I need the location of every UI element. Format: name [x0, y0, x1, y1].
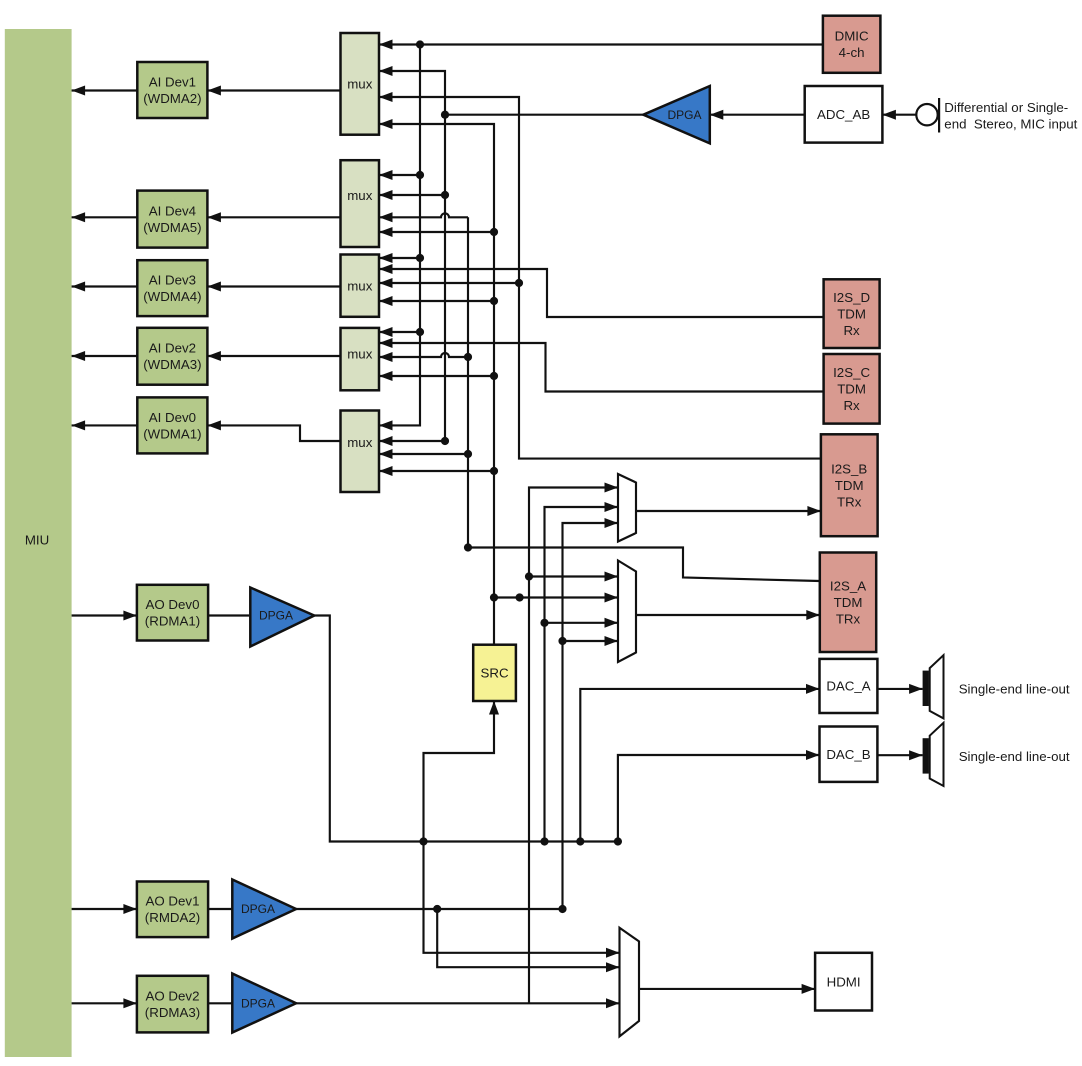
wire SRC branch to mux M4 input 4: [379, 371, 494, 381]
svg-text:mux: mux: [347, 188, 372, 203]
wire ADC column (B) to mux M1 input 2: [379, 66, 449, 445]
wire DPGA2 output to trapezoid B3 input 3: [296, 998, 619, 1008]
svg-text:I2S_D: I2S_D: [833, 290, 870, 305]
svg-text:AI Dev4: AI Dev4: [149, 204, 196, 219]
svg-text:AI Dev1: AI Dev1: [149, 74, 196, 89]
block AO Dev0 (RDMA1): [137, 585, 208, 641]
svg-text:(RDMA3): (RDMA3): [145, 1005, 200, 1020]
wire AO Dev2 to DPGA: [208, 1002, 232, 1004]
wire DMIC column down to mux M5 input 1: [379, 45, 424, 431]
wire AI Dev3 to MIU: [72, 282, 138, 292]
wire DMIC output to mux M1 input 1: [379, 40, 823, 50]
MIU memory-interface bar: [5, 29, 72, 1057]
wire trapezoid B2 output to I2S_A Tx: [636, 610, 820, 620]
svg-text:DAC_B: DAC_B: [826, 747, 870, 762]
wire AO Dev0 to DPGA: [208, 614, 249, 616]
wire DAC_A to speaker: [877, 684, 922, 694]
wire SRC branch to mux M2 input 4: [379, 227, 494, 237]
wire AO Dev0 branch to trapezoid B2 input 3: [545, 618, 619, 628]
svg-text:TDM: TDM: [837, 306, 866, 321]
wire I2S_A branch to mux M5 input 3: [379, 449, 468, 459]
svg-text:TRx: TRx: [836, 611, 861, 626]
wire AO Dev1 column H up to trapezoid B1 input 3: [558, 518, 618, 909]
wire mux M1 output to AI box: [207, 86, 340, 96]
wire I2S_A column C to mux M2 input 3: [464, 217, 472, 547]
svg-text:AO Dev2: AO Dev2: [146, 989, 200, 1004]
wire AO Dev0 riser to SRC input: [424, 701, 500, 842]
svg-text:I2S_B: I2S_B: [831, 461, 867, 476]
svg-text:(WDMA5): (WDMA5): [143, 220, 201, 235]
block AI Dev0 (WDMA1): [137, 397, 207, 453]
wire trapezoid B1 output to I2S_B Tx: [636, 506, 821, 516]
wire I2S_A branch to mux M2 input 3 (hop): [379, 212, 468, 222]
svg-text:(RMDA2): (RMDA2): [145, 910, 200, 925]
wire DMIC branch to mux M2 input 1: [379, 170, 420, 180]
svg-text:mux: mux: [347, 435, 372, 450]
svg-text:SRC: SRC: [481, 666, 509, 681]
block DAC_B: [820, 727, 878, 782]
mux M3: [341, 255, 380, 317]
wire ADC branch to mux M2 input 2: [379, 190, 445, 200]
block I2S_B TDM TRx: [821, 434, 878, 536]
svg-text:mux: mux: [347, 77, 372, 92]
mux trapezoid B1 (I2S_B Tx select): [618, 474, 636, 542]
svg-text:TRx: TRx: [837, 494, 862, 509]
svg-text:AO Dev0: AO Dev0: [146, 597, 200, 612]
block I2S_C TDM Rx: [824, 354, 880, 424]
wire mux M2 output to AI box: [207, 212, 340, 222]
svg-text:AI Dev3: AI Dev3: [149, 273, 196, 288]
svg-text:MIU: MIU: [25, 533, 49, 548]
speaker line-out B: [923, 723, 944, 786]
wire SRC branch to mux M3 input 4: [379, 296, 494, 306]
wire MIU to AO Dev1: [72, 904, 137, 914]
wire DPGA1 output across (AO Dev1 net): [296, 905, 567, 913]
svg-text:mux: mux: [347, 278, 372, 293]
wire AO Dev0 riser to DAC_B: [618, 750, 820, 842]
svg-text:ADC_AB: ADC_AB: [817, 107, 870, 122]
svg-text:(WDMA4): (WDMA4): [143, 289, 201, 304]
wire AO Dev0 riser to DAC_A: [580, 684, 819, 842]
svg-text:TDM: TDM: [837, 382, 866, 397]
svg-text:(WDMA1): (WDMA1): [143, 426, 201, 441]
svg-text:AI Dev2: AI Dev2: [149, 341, 196, 356]
label single-end line-out: [959, 682, 1070, 697]
svg-text:Single-end line-out: Single-end line-out: [959, 682, 1070, 697]
svg-text:4-ch: 4-ch: [839, 45, 865, 60]
block SRC sample-rate converter: [473, 645, 516, 701]
svg-text:DMIC: DMIC: [835, 29, 869, 44]
wire AO Dev2 column F up to trapezoid B1 input 1: [525, 483, 618, 1004]
block ADC_AB: [805, 86, 883, 143]
amplifier DPGA (AO Dev2, points right): [232, 974, 296, 1033]
block AO Dev2 (RDMA3): [137, 976, 208, 1033]
wire DMIC branch to mux M3 input 1: [379, 253, 420, 263]
block AI Dev2 (WDMA3): [137, 328, 207, 385]
wire DPGA output to ADC column: [445, 114, 643, 116]
microphone input connector: [916, 98, 939, 133]
wire I2S_D Rx to mux M3 input 2: [379, 264, 824, 317]
wire AO Dev1 riser down to trapezoid B3 input 2: [437, 909, 619, 972]
wire AI Dev2 to MIU: [72, 351, 138, 361]
wire MIC connector to ADC_AB: [882, 110, 916, 120]
mux M4: [341, 328, 380, 390]
wire I2S_B branch to mux M3 input 3: [379, 278, 519, 288]
wire SRC branch to mux M5 input 4: [379, 466, 494, 476]
block AI Dev3 (WDMA4): [137, 260, 207, 316]
block DMIC 4-ch: [823, 16, 881, 73]
wire AI Dev0 to MIU: [72, 420, 138, 430]
wire I2S_C Rx to mux M4 input 2: [379, 338, 824, 392]
wire AO Dev1 branch to trapezoid B2 input 4: [563, 636, 619, 646]
block AI Dev4 (WDMA5): [137, 191, 207, 248]
svg-text:DPGA: DPGA: [259, 609, 293, 623]
svg-text:Differential or Single-: Differential or Single-: [944, 100, 1068, 115]
svg-text:I2S_C: I2S_C: [833, 365, 870, 380]
block I2S_A TDM TRx: [820, 553, 876, 653]
wire AI Dev1 to MIU: [72, 86, 138, 96]
wire I2S_B Rx to mux M1 input 3: [379, 92, 821, 459]
svg-text:DPGA: DPGA: [241, 997, 275, 1011]
mux M2: [341, 160, 380, 247]
wire mux M4 output to AI box: [207, 351, 340, 361]
wire ADC_AB to DPGA: [710, 110, 805, 120]
wire AO Dev0 column G up to trapezoid B1 input 2: [540, 502, 618, 842]
block HDMI: [815, 953, 872, 1011]
svg-text:TDM: TDM: [835, 478, 864, 493]
svg-text:HDMI: HDMI: [827, 974, 861, 989]
block I2S_D TDM Rx: [824, 279, 880, 348]
svg-text:(WDMA3): (WDMA3): [143, 357, 201, 372]
svg-text:AI Dev0: AI Dev0: [149, 410, 196, 425]
wire SRC branch to trapezoid B2 input 2: [494, 593, 618, 603]
wire DAC_B to speaker: [877, 750, 922, 760]
svg-text:(WDMA2): (WDMA2): [143, 91, 201, 106]
speaker line-out A: [923, 655, 944, 718]
svg-text:mux: mux: [347, 347, 372, 362]
wire AI Dev4 to MIU: [72, 212, 138, 222]
amplifier DPGA (ADC path, points left): [643, 86, 709, 143]
svg-text:Rx: Rx: [843, 398, 860, 413]
svg-text:DPGA: DPGA: [241, 902, 275, 916]
svg-text:(RDMA1): (RDMA1): [145, 614, 200, 629]
amplifier DPGA (AO Dev0, points right): [250, 588, 314, 647]
block AO Dev1 (RMDA2): [137, 882, 208, 938]
svg-text:DAC_A: DAC_A: [826, 679, 870, 694]
wire mux M3 output to AI box: [207, 282, 340, 292]
wire AO Dev2 branch to trapezoid B2 input 1: [529, 572, 618, 582]
block AI Dev1 (WDMA2): [137, 62, 207, 118]
svg-text:DPGA: DPGA: [667, 108, 701, 122]
amplifier DPGA (AO Dev1, points right): [232, 880, 296, 939]
wire mux M5 output to AI Dev0: [207, 420, 340, 441]
wire SRC output column to mux M1 input 4: [379, 119, 498, 645]
svg-text:AO Dev1: AO Dev1: [146, 894, 200, 909]
svg-text:Rx: Rx: [843, 323, 860, 338]
svg-text:TDM: TDM: [834, 595, 863, 610]
mux trapezoid B2 (I2S_A Tx select): [618, 561, 636, 663]
wire I2S_A Rx jog to column C: [464, 543, 820, 581]
wire MIU to AO Dev0: [72, 611, 137, 621]
wire DPGA0 output down and across (AO Dev0 net): [314, 616, 622, 846]
wire MIU to AO Dev2: [72, 998, 137, 1008]
wire trapezoid B3 output to HDMI: [639, 984, 815, 994]
wire I2S_A branch to mux M4 input 3 (hop): [379, 352, 468, 362]
label differential or single-end stereo MIC input: [944, 100, 1077, 131]
wire AO Dev1 to DPGA: [208, 908, 232, 910]
wire DMIC branch to mux M4 input 1: [379, 327, 420, 337]
svg-text:Single-end line-out: Single-end line-out: [959, 749, 1070, 764]
wire AO Dev0 riser down to trapezoid B3 input 1: [424, 842, 620, 958]
mux trapezoid B3 (HDMI select): [620, 928, 640, 1037]
mux M5: [341, 411, 380, 493]
svg-text:I2S_A: I2S_A: [830, 578, 866, 593]
wire ADC branch to mux M5 input 2: [379, 436, 445, 446]
mux M1: [341, 33, 380, 135]
block DAC_A: [820, 659, 878, 713]
label single-end line-out: [959, 749, 1070, 764]
svg-text:end Stereo, MIC input: end Stereo, MIC input: [944, 116, 1077, 131]
